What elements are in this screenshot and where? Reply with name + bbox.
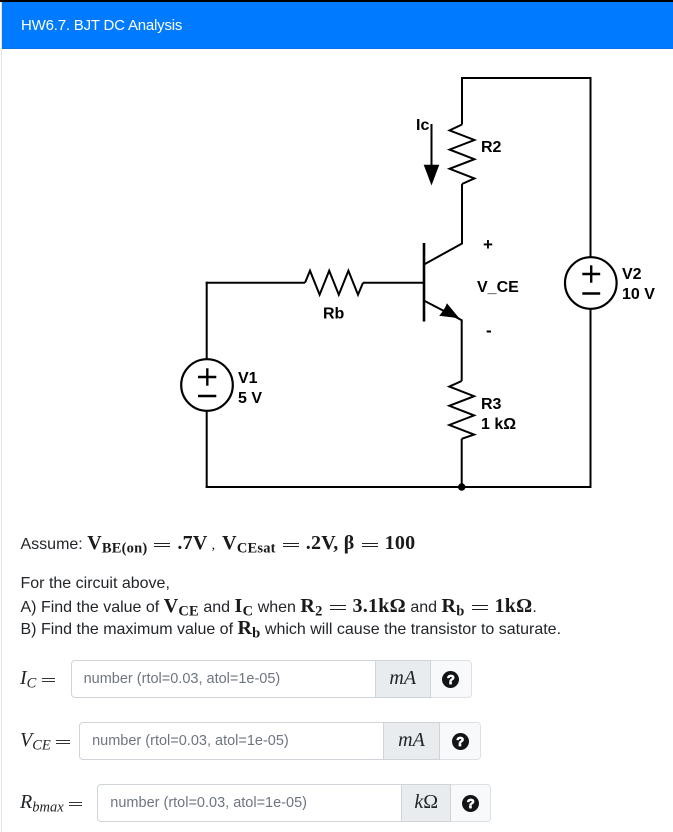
svg-text:V_CE: V_CE bbox=[477, 279, 519, 296]
svg-text:5 V: 5 V bbox=[238, 390, 262, 407]
svg-text:Rb: Rb bbox=[323, 306, 345, 323]
resistor R3 bbox=[449, 381, 474, 439]
wire: bottom rail bbox=[206, 486, 592, 488]
svg-text:V1: V1 bbox=[238, 370, 258, 387]
wire: collector vertical lead (R2 bottom) bbox=[461, 184, 463, 244]
resistor R2 bbox=[450, 125, 475, 185]
transistor Q1 emitter arrowhead bbox=[439, 303, 459, 318]
svg-text:-: - bbox=[486, 321, 492, 340]
assume line bbox=[21, 531, 416, 561]
wire: top horizontal bbox=[461, 77, 592, 79]
card header bbox=[2, 2, 673, 49]
wire: base rail right segment bbox=[363, 282, 424, 284]
answer input group I_C bbox=[71, 660, 472, 698]
svg-text:1 kΩ: 1 kΩ bbox=[481, 416, 516, 433]
wire: emitter vertical (R3 top lead) bbox=[461, 320, 463, 382]
answer label I_C = bbox=[20, 666, 55, 696]
wire: left vertical upper from V1 top to base-rail corner bbox=[206, 282, 208, 360]
current arrow Ic head bbox=[424, 165, 440, 186]
svg-text:+: + bbox=[483, 235, 493, 254]
svg-text:V2: V2 bbox=[622, 266, 642, 283]
wire: left vertical lower from bottom rail to V1 bottom bbox=[206, 411, 208, 488]
junction node at bottom rail bbox=[458, 483, 465, 490]
answer label V_CE = bbox=[20, 728, 70, 758]
circuit schematic bbox=[0, 55, 673, 515]
paragraph: For the circuit above bbox=[21, 572, 170, 596]
transistor Q1 base bar bbox=[423, 243, 426, 322]
resistor Rb bbox=[305, 271, 363, 295]
voltage source V1 bbox=[181, 359, 233, 411]
transistor Q1 emitter diagonal bbox=[424, 301, 462, 321]
answer input group V_CE bbox=[79, 722, 481, 760]
paragraph line B bbox=[21, 616, 562, 646]
paragraph line A bbox=[21, 594, 537, 624]
current arrow Ic line bbox=[431, 124, 433, 167]
wire: R2 top lead bbox=[461, 77, 463, 125]
svg-text:Ic: Ic bbox=[416, 117, 429, 134]
top black strip bbox=[0, 0, 673, 2]
voltage source V2 bbox=[565, 257, 617, 309]
svg-text:R2: R2 bbox=[481, 139, 502, 156]
wire: base rail left segment bbox=[206, 282, 305, 284]
wire: right vertical upper to V2 top bbox=[590, 77, 592, 258]
answer input group R_bmax bbox=[97, 784, 491, 822]
svg-text:R3: R3 bbox=[481, 396, 502, 413]
wire: right vertical lower from V2 bottom to bottom rail bbox=[590, 309, 592, 488]
wire: R3 bottom lead bbox=[461, 439, 463, 487]
svg-text:10 V: 10 V bbox=[622, 286, 655, 303]
transistor Q1 collector diagonal bbox=[424, 243, 463, 264]
answer label R_bmax = bbox=[20, 790, 82, 820]
